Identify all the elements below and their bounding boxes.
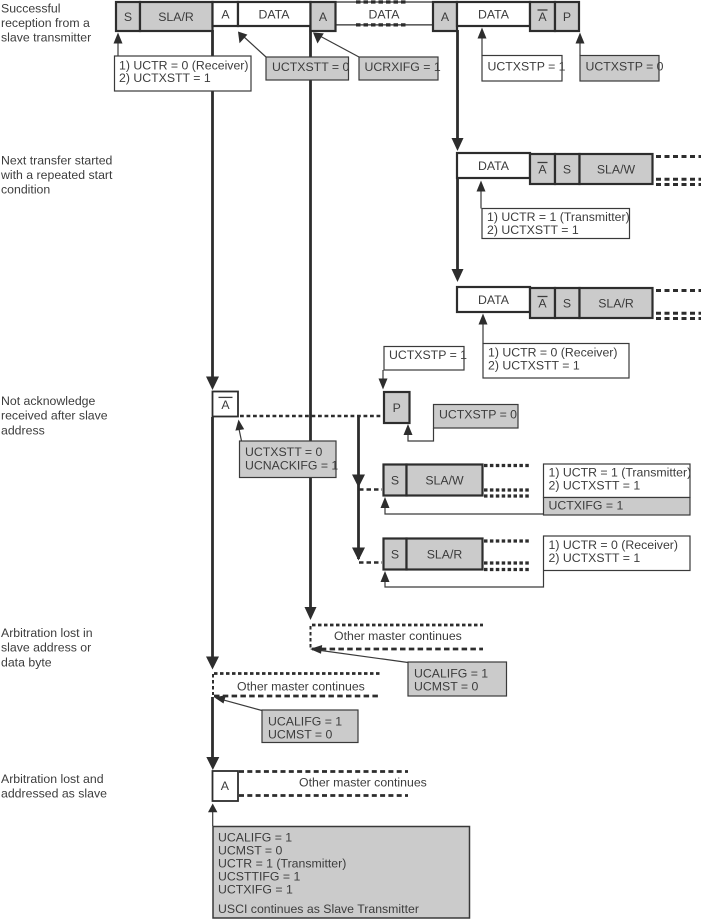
box S (gray, restart W) (384, 465, 407, 496)
box P (stop, gray) (555, 2, 579, 31)
label: Arbitration lost in slave address or data byte (1, 626, 93, 670)
svg-text:A: A (221, 398, 230, 412)
box SLA/W (gray) (407, 465, 483, 496)
label: Arbitration lost and addressed as slave (1, 772, 107, 801)
box DATA (white second) (457, 2, 530, 26)
svg-text:2) UCTXSTT = 1: 2) UCTXSTT = 1 (119, 71, 211, 85)
callout: UCALIFG=1 / UCMST=0 second (gray) (262, 710, 358, 743)
svg-text:UCTXSTT = 0: UCTXSTT = 0 (245, 445, 322, 459)
arrowhead down into other-master box 1 (305, 607, 317, 620)
svg-text:DATA: DATA (478, 293, 510, 307)
callout: UCTR=1 transmitter / UCTXSTT=1 row2 (white) (482, 209, 630, 239)
arrowhead down into other-master box 2 (206, 657, 219, 670)
svg-text:Successful: Successful (1, 2, 60, 16)
svg-text:UCTXIFG = 1: UCTXIFG = 1 (549, 498, 624, 512)
box Abar row2 (gray) (530, 154, 555, 184)
wire: dashed entry to S SLA/R (359, 561, 382, 564)
box DATA row3 (white) (457, 287, 530, 312)
svg-text:S: S (124, 10, 132, 24)
svg-text:reception from a: reception from a (1, 16, 90, 30)
callout: UCTXSTT = 0 (gray) (266, 57, 349, 80)
arrow up to row3 DATA from callout (479, 314, 488, 344)
svg-text:A: A (538, 162, 547, 176)
svg-text:Not acknowledge: Not acknowledge (1, 394, 95, 408)
callout: UCTR=0 receiver / UCTXSTT=1 (white) (115, 56, 252, 91)
callout: UCTR=0 receiver / UCTXSTT=1 row3 (white) (483, 344, 629, 379)
arrow up to A bottom from big box (208, 804, 217, 827)
box SLA/R row3 (gray) (580, 288, 653, 318)
svg-text:UCALIFG = 1: UCALIFG = 1 (268, 714, 342, 728)
box A (addressed as slave, white) (213, 771, 239, 801)
box DATA row2 (white) (457, 153, 530, 178)
arrow diagonal to DATA from UCTXSTT=0 box (238, 32, 266, 58)
arrow from UCNACK callout to Abar corner (235, 420, 244, 442)
arrowhead down into NACK Abar box (206, 377, 219, 391)
wire: thick vertical from dashed junction down to S rows (357, 417, 360, 559)
box P mid (gray) (384, 392, 410, 423)
callout: UCTXSTP = 0 (gray) (580, 56, 664, 82)
svg-text:UCALIFG = 1: UCALIFG = 1 (414, 666, 488, 680)
box A (ack, gray second) (433, 2, 457, 31)
arrowhead mid at first S row (352, 475, 365, 488)
callout: UCALIFG=1 / UCMST=0 (gray) (408, 662, 507, 696)
box S row2 (gray) (555, 154, 580, 184)
svg-text:UCMST = 0: UCMST = 0 (218, 843, 283, 857)
box SLA/R (gray) (140, 2, 213, 31)
svg-text:Arbitration lost in: Arbitration lost in (1, 626, 93, 640)
svg-text:S: S (563, 296, 571, 310)
box S row3 (gray) (555, 288, 580, 318)
svg-text:Other master continues: Other master continues (299, 776, 427, 790)
label: Next transfer started with a repeated start condition (0, 153, 113, 196)
arrowhead at second S row (352, 548, 365, 561)
box NACK Abar (gray) (530, 2, 555, 31)
svg-text:DATA: DATA (478, 159, 510, 173)
arrow left into box2 from UCALIFG callout 2 (215, 695, 263, 711)
svg-text:Next transfer started: Next transfer started (1, 153, 113, 167)
box A (ack, gray) (311, 2, 336, 31)
callout: UCTR=1 transmitter / UCTXSTT=1 (white) (544, 464, 692, 498)
box A (ack, white) (213, 2, 239, 26)
svg-text:S: S (391, 473, 399, 487)
arrow up to S with connector from UCTXIFG (381, 497, 544, 514)
svg-text:P: P (393, 401, 401, 415)
svg-text:slave transmitter: slave transmitter (1, 31, 91, 45)
svg-text:UCTR = 1 (Transmitter): UCTR = 1 (Transmitter) (218, 857, 346, 871)
svg-text:S: S (391, 547, 399, 561)
svg-text:address: address (1, 423, 45, 437)
svg-text:SLA/R: SLA/R (158, 10, 194, 24)
wire: long vertical line L2 from DATA down to other-master box (309, 25, 312, 608)
svg-text:UCMST = 0: UCMST = 0 (414, 679, 479, 693)
arrow up to row2 DATA from callout (477, 181, 486, 209)
svg-text:UCTXSTT = 0: UCTXSTT = 0 (272, 60, 349, 74)
callout: UCTR=0 receiver / UCTXSTT=1 (white) (544, 536, 691, 571)
svg-text:UCTXSTP = 1: UCTXSTP = 1 (389, 348, 467, 362)
svg-text:UCTXSTP = 1: UCTXSTP = 1 (488, 60, 566, 74)
svg-text:UCTXIFG = 1: UCTXIFG = 1 (218, 883, 293, 897)
arrow up to DATA from UCTXSTP=1 callout (478, 28, 487, 56)
box S (start, gray) (116, 2, 140, 31)
svg-text:DATA: DATA (478, 7, 510, 21)
wire: dashed continuation right of SLA/W row2 (656, 157, 701, 185)
box SLA/W row2 (gray) (580, 154, 653, 184)
svg-text:A: A (221, 7, 230, 21)
svg-text:UCNACKIFG = 1: UCNACKIFG = 1 (245, 458, 338, 472)
wire: dashed continuation right of SLA/W (484, 466, 530, 497)
svg-text:addressed as slave: addressed as slave (1, 787, 107, 801)
wire: dashed continuation right of SLA/R (484, 541, 530, 570)
svg-text:data byte: data byte (1, 655, 52, 669)
svg-text:A: A (221, 779, 230, 793)
svg-text:DATA: DATA (369, 7, 401, 21)
arrow up to S from callout (114, 33, 123, 57)
arrow left into box1 from UCALIFG callout (310, 645, 408, 663)
callout: UCTXIFG = 1 (gray) (544, 498, 691, 516)
box: other master continues 1 (dashed) (311, 625, 484, 649)
svg-text:Other master continues: Other master continues (334, 629, 462, 643)
box DATA (dashed continuation) (336, 2, 433, 25)
arrow up to S2 with connector from callout (381, 571, 544, 587)
box: other master continues 2 (dashed) (213, 674, 381, 697)
arrow diagonal to gray A from UCRXIFG box (313, 33, 359, 58)
svg-text:SLA/R: SLA/R (598, 296, 634, 310)
arrow down from UCTXSTP=1 to P (379, 370, 388, 390)
svg-text:SLA/W: SLA/W (425, 473, 464, 487)
wire: vertical line L3b from row2 DATA down to row3 DATA (456, 178, 459, 271)
svg-text:with a repeated start: with a repeated start (0, 168, 113, 182)
svg-text:received after slave: received after slave (1, 409, 108, 423)
svg-text:P: P (563, 10, 571, 24)
svg-text:UCALIFG = 1: UCALIFG = 1 (218, 830, 292, 844)
svg-text:DATA: DATA (259, 7, 291, 21)
svg-text:S: S (563, 162, 571, 176)
label: Successful reception from a slave transmitter (1, 2, 91, 45)
box: other master continues 3 (dashed) (239, 772, 427, 796)
callout: UCTXSTP = 1 mid (white) (384, 347, 467, 371)
label: Not acknowledge received after slave address (1, 394, 108, 438)
svg-text:2) UCTXSTT = 1: 2) UCTXSTT = 1 (488, 358, 580, 372)
wire: dashed entry to S SLA/W (359, 488, 382, 491)
svg-text:UCTXSTP = 0: UCTXSTP = 0 (439, 407, 517, 421)
svg-text:USCI continues as Slave Transm: USCI continues as Slave Transmitter (218, 902, 419, 916)
wire: long vertical line L1 from SLA/R down to NACK A box (211, 30, 214, 378)
svg-text:2) UCTXSTT = 1: 2) UCTXSTT = 1 (549, 551, 641, 565)
svg-text:1) UCTR = 1 (Transmitter): 1) UCTR = 1 (Transmitter) (487, 210, 630, 224)
svg-text:1) UCTR = 0 (Receiver): 1) UCTR = 0 (Receiver) (488, 345, 617, 359)
wire: dashed continuation right of SLA/R row3 (656, 291, 701, 319)
svg-text:condition: condition (1, 183, 50, 197)
svg-text:UCTXSTP = 0: UCTXSTP = 0 (586, 60, 664, 74)
svg-text:UCSTTIFG = 1: UCSTTIFG = 1 (218, 870, 300, 884)
svg-text:2) UCTXSTT = 1: 2) UCTXSTT = 1 (549, 478, 641, 492)
box SLA/R (gray) (407, 539, 483, 570)
svg-text:2) UCTXSTT = 1: 2) UCTXSTT = 1 (487, 223, 579, 237)
box: USCI continues as slave transmitter (big gray) (213, 827, 470, 919)
wire: vertical line L3a from top A box down to row2 DATA (456, 30, 459, 140)
box Abar row3 (gray) (530, 288, 555, 318)
arrow up to P from UCTXSTP=0 callout (576, 33, 585, 56)
wire: dashed from Abar to P (240, 415, 384, 417)
callout: UCRXIFG = 1 (gray) (359, 57, 441, 80)
callout: UCTXSTP = 1 (white) (482, 56, 566, 82)
svg-text:1) UCTR = 0 (Receiver): 1) UCTR = 0 (Receiver) (549, 538, 678, 552)
arrow up to P bottom with connector from UCTXSTP=0 (404, 424, 434, 441)
svg-text:SLA/R: SLA/R (427, 547, 463, 561)
box NACK Abar (white) (213, 392, 239, 417)
callout: UCTXSTT=0 / UCNACKIFG=1 (gray) (240, 441, 339, 478)
svg-text:Other master continues: Other master continues (237, 680, 365, 694)
box DATA (white) (238, 2, 311, 26)
arrowhead down into row3 DATA (452, 269, 464, 282)
arrowhead down into row2 DATA (452, 138, 464, 151)
svg-text:A: A (441, 10, 450, 24)
svg-text:UCRXIFG = 1: UCRXIFG = 1 (365, 60, 441, 74)
svg-text:slave address or: slave address or (1, 641, 91, 655)
arrowhead down into A box (206, 757, 219, 770)
svg-text:UCMST = 0: UCMST = 0 (268, 727, 333, 741)
box S (gray, restart R) (384, 539, 407, 570)
svg-text:Arbitration lost and: Arbitration lost and (1, 772, 104, 786)
svg-text:A: A (319, 10, 328, 24)
svg-text:A: A (538, 10, 547, 24)
svg-text:SLA/W: SLA/W (597, 162, 636, 176)
callout: UCTXSTP = 0 mid (gray) (434, 405, 519, 429)
svg-text:1) UCTR = 1 (Transmitter): 1) UCTR = 1 (Transmitter) (549, 465, 692, 479)
wire: L1 continues below box 2 (211, 697, 214, 758)
svg-text:A: A (538, 296, 547, 310)
wire: L1 continues below Abar (211, 417, 214, 658)
